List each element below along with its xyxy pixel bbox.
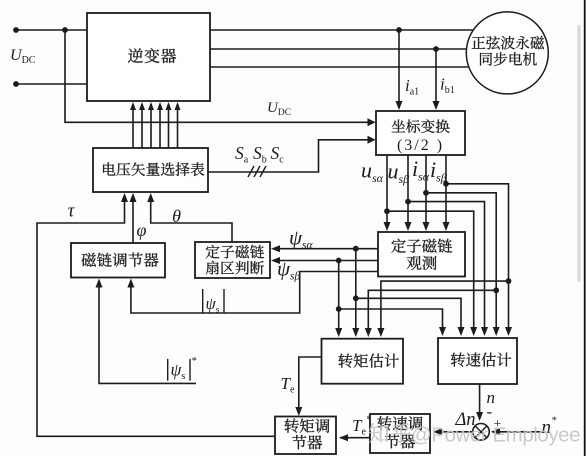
label minus sign	[487, 402, 493, 421]
arrow phi into selection table	[130, 193, 137, 202]
wire i_s_beta branch to torque estimator	[381, 281, 509, 335]
wire gate signals (6 arrows) selection table to inverter	[130, 102, 181, 148]
arrow ib into transform	[433, 101, 440, 110]
block torque regulator	[275, 417, 336, 455]
label i_a1	[405, 76, 419, 97]
arrow i_s_beta into observer	[443, 222, 450, 231]
wire i_s_alpha branch to speed estimator	[426, 193, 496, 334]
label S_a S_b S_c	[235, 143, 284, 166]
svg-text:@Power Employee: @Power Employee	[411, 423, 580, 446]
wire T_e torque estimator to torque regulator	[299, 357, 322, 413]
wire n speed estimator to summing junction	[479, 384, 481, 419]
wire T_e* speed regulator to torque regulator	[340, 437, 370, 439]
block flux regulator	[71, 243, 165, 278]
svg-text:τ: τ	[68, 201, 76, 222]
wire i_s_beta down to observer	[445, 155, 447, 228]
arrow T_e* into torque regulator	[339, 434, 348, 441]
arrow psi_s_alpha into sector judge	[271, 245, 280, 252]
wire psi_s_beta down to torque estimator	[338, 261, 340, 336]
node psi_s_alpha branch	[353, 246, 359, 252]
label n	[487, 388, 496, 407]
block inverter	[87, 13, 210, 101]
arrow i_s_beta into speed estimator	[505, 327, 512, 336]
wire u_s_beta down to observer	[407, 155, 409, 228]
arrow psi_s_beta into sector judge	[271, 257, 280, 264]
block torque estimator	[322, 339, 404, 384]
wire phase b	[210, 48, 467, 50]
motor PMSM circle	[466, 12, 548, 94]
block coordinate transform 3/2	[376, 111, 465, 155]
node i_s_alpha to torque branch	[493, 287, 499, 293]
arrow u_s_beta into observer	[405, 222, 412, 231]
wire phase a	[210, 29, 473, 31]
wire tau feedback torque-regulator to selection table	[37, 195, 275, 436]
node i_s_beta branch	[443, 181, 449, 187]
watermark zhihu @Power Employee	[369, 423, 580, 446]
wire ia measurement drop	[398, 30, 400, 108]
label theta	[172, 206, 181, 226]
arrow u_s_alpha into observer	[384, 222, 391, 231]
arrow theta into selection table	[147, 193, 154, 202]
arrow into coordinate transform U_DC input	[368, 118, 376, 126]
wire phi flux-regulator to selection table	[132, 195, 134, 243]
svg-text:θ: θ	[172, 206, 181, 226]
arrow n into summing junction	[476, 412, 483, 421]
wire flux magnitude observer to flux regulator	[131, 272, 378, 314]
arrow tau into selection table	[121, 193, 128, 202]
label i_b1	[440, 75, 455, 96]
wire n reference into summing junction	[492, 431, 545, 433]
label i_s_alpha	[412, 156, 430, 183]
window edge line	[584, 0, 586, 456]
symbol bundle slash marks	[248, 166, 266, 177]
arrow flux magnitude into flux regulator	[127, 279, 134, 288]
label T_e	[281, 374, 295, 395]
wire ib measurement drop	[435, 49, 437, 108]
label U_DC bus	[267, 100, 291, 118]
wire i_s_alpha branch to torque estimator	[368, 290, 496, 335]
label delta n	[454, 410, 475, 430]
arrow psi_s_beta into speed estimator	[439, 327, 446, 336]
label phi	[137, 220, 147, 240]
label |psi_s|* reference	[168, 355, 197, 382]
wire theta sector-judge to selection table	[151, 195, 232, 242]
node psi_s_alpha speed branch	[353, 295, 359, 301]
arrow u_s_alpha into speed estimator	[470, 327, 477, 336]
arrow i_s_alpha into observer	[423, 222, 430, 231]
svg-text:(3/2 ): (3/2 )	[397, 137, 444, 154]
wire psi_s_alpha down to torque estimator	[355, 249, 357, 335]
block stator flux sector judgment	[195, 242, 270, 278]
wire U_DC positive rail	[16, 29, 87, 31]
node DC+ terminal	[13, 27, 19, 33]
label U_DC source	[10, 47, 36, 66]
label u_s_alpha	[361, 158, 384, 185]
wire i_s_beta branch to speed estimator	[446, 184, 509, 334]
wire U_DC negative rail	[16, 83, 87, 85]
wire psi_s_alpha branch to speed estimator	[356, 298, 461, 334]
wire Sa Sb Sc to transform	[208, 140, 371, 172]
svg-text:-: -	[487, 402, 493, 421]
arrow i_s_alpha into torque estimator	[365, 328, 372, 337]
node ib tap	[433, 46, 439, 52]
arrow into transform S input	[368, 136, 376, 144]
block stator flux observer	[378, 232, 465, 277]
node psi_s_beta branch	[336, 258, 342, 264]
node u_s_beta branch	[405, 199, 411, 205]
arrow ia into transform	[396, 101, 403, 110]
label u_s_beta	[388, 159, 410, 186]
wire u_s_alpha branch to speed estimator	[387, 211, 474, 334]
arrow i_s_beta into torque estimator	[377, 328, 384, 337]
label tau	[68, 201, 76, 222]
node DC+ junction	[62, 27, 68, 33]
wire U_DC feed to coordinate transform	[65, 30, 371, 122]
label n* reference	[542, 415, 558, 439]
label |psi_s|	[203, 289, 224, 315]
node DC- terminal	[13, 81, 19, 87]
wire psi_s_beta observer to sector judge	[274, 260, 378, 262]
summing junction circle	[473, 424, 490, 441]
scrollbar thumb	[577, 25, 580, 282]
arrow T_e into torque regulator	[295, 407, 302, 416]
wire delta n junction to speed regulator	[434, 431, 473, 433]
wire flux reference into flux regulator	[99, 283, 196, 383]
label plus sign	[494, 417, 502, 432]
node i_s_alpha branch	[423, 190, 429, 196]
label psi_s_alpha	[289, 226, 314, 252]
label i_s_beta	[430, 157, 447, 184]
svg-text:*: *	[192, 355, 198, 367]
label psi_s_beta	[277, 257, 301, 283]
arrow delta n into speed regulator	[433, 428, 442, 435]
node u_s_alpha branch	[384, 208, 390, 214]
arrow psi_s_alpha into torque estimator	[352, 328, 359, 337]
svg-text:φ: φ	[137, 220, 147, 240]
arrow flux reference into flux regulator	[96, 279, 103, 288]
arrow psi_s_alpha into speed estimator	[458, 327, 465, 336]
node ia tap	[396, 27, 402, 33]
wire psi_s_alpha observer to sector judge	[274, 248, 378, 250]
label T_e*	[352, 415, 371, 438]
arrow n reference into junction	[491, 428, 500, 435]
block voltage vector selection table	[93, 148, 208, 192]
arrow psi_s_beta into torque estimator	[335, 328, 342, 337]
node psi_s_beta speed branch	[336, 306, 342, 312]
wire psi_s_beta branch to speed estimator	[339, 309, 443, 334]
wire i_s_alpha down to observer	[425, 155, 427, 228]
arrow u_s_beta into speed estimator	[481, 327, 488, 336]
wire u_s_beta branch to speed estimator	[408, 202, 485, 334]
node i_s_beta to torque branch	[506, 278, 512, 284]
wire phase c	[210, 66, 469, 68]
block speed estimator	[438, 338, 517, 384]
arrow i_s_alpha into speed estimator	[493, 327, 500, 336]
block speed regulator	[370, 414, 430, 453]
wire u_s_alpha down to observer	[386, 155, 388, 228]
